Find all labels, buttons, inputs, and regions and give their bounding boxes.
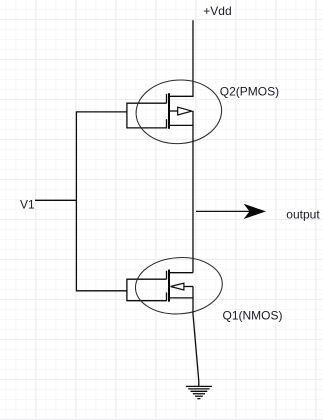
label Q1(NMOS) xyxy=(223,309,283,323)
ground xyxy=(186,386,212,398)
wire Vdd to Q2 source xyxy=(169,20,193,96)
svg-text:output: output xyxy=(286,208,320,222)
transistor Q1 (NMOS) xyxy=(127,270,193,302)
arrowhead output xyxy=(244,204,266,219)
ellipse marker around Q2 xyxy=(134,77,224,146)
wire Q2 drain to Q1 drain xyxy=(192,111,194,273)
svg-text:Q1(NMOS): Q1(NMOS) xyxy=(223,309,283,323)
ellipse marker around Q1 xyxy=(134,255,225,317)
wire output tap xyxy=(196,210,251,212)
wire V1 input xyxy=(35,199,77,201)
svg-text:+Vdd: +Vdd xyxy=(203,4,231,18)
svg-text:V1: V1 xyxy=(20,198,35,212)
svg-text:Q2(PMOS): Q2(PMOS) xyxy=(220,84,279,98)
label output xyxy=(286,208,320,222)
node +Vdd xyxy=(203,4,231,18)
wire gate bus xyxy=(76,112,127,291)
transistor Q2 (PMOS) xyxy=(127,93,193,129)
label Q2(PMOS) xyxy=(220,84,279,98)
node V1 xyxy=(20,198,35,212)
wire Q1 source to ground xyxy=(193,287,199,386)
